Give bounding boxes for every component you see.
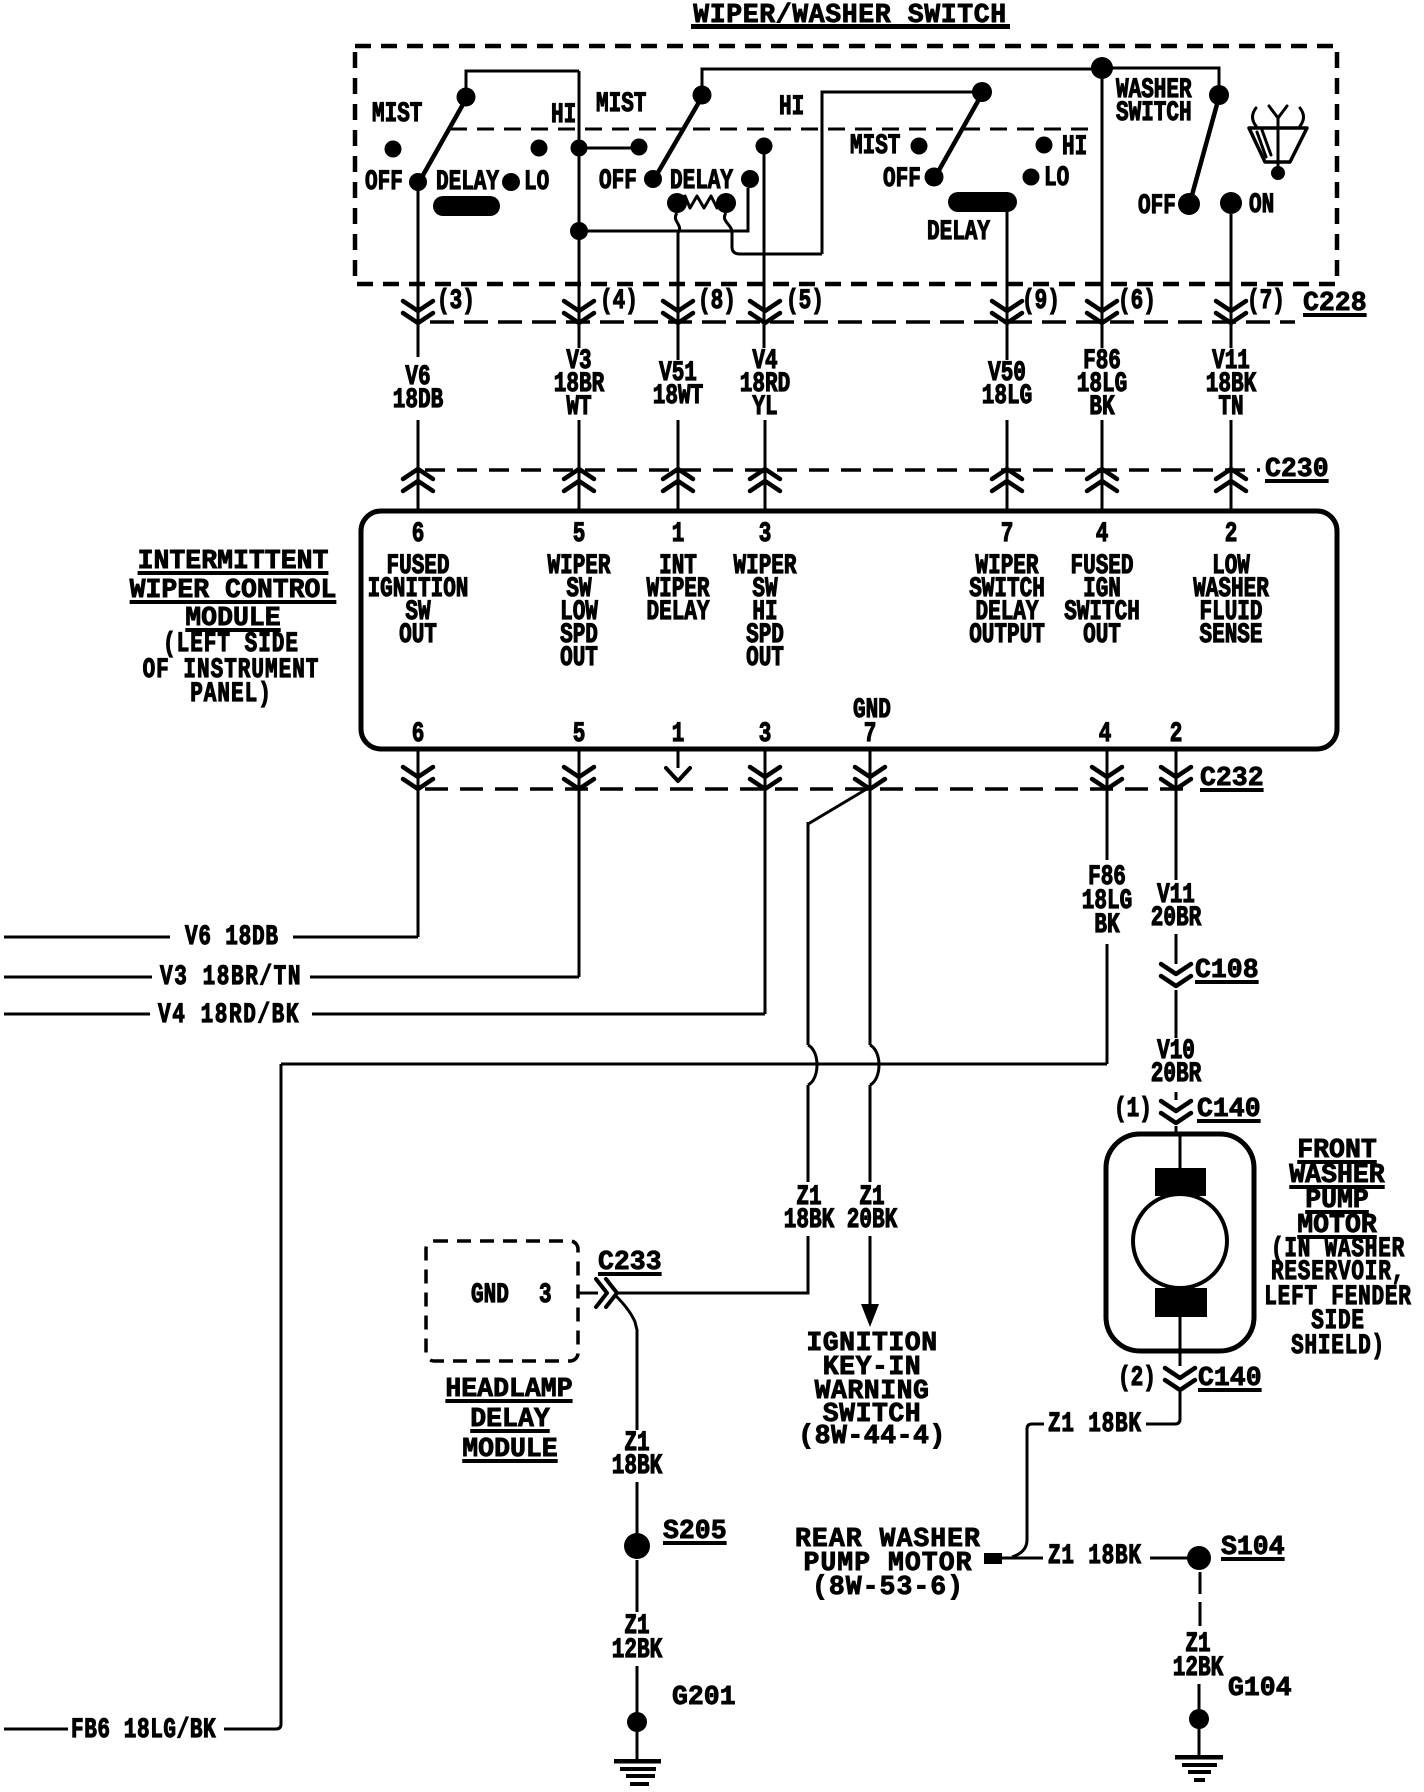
washer switch pivot contact — [1209, 85, 1229, 105]
ground G104 dot — [1189, 1709, 1209, 1729]
switch S1 OFF column wire (pin 3) — [417, 182, 420, 357]
wire label FB6 18LG/BK — [71, 1720, 216, 1743]
wire F86 18LG/BK into module — [1101, 420, 1104, 511]
pin label (9) — [1022, 291, 1060, 314]
title: WIPER/WASHER SWITCH — [640, 3, 1060, 27]
connector C233 chevrons — [596, 1279, 607, 1307]
connector label C108 — [1195, 958, 1259, 982]
module GND label — [853, 700, 891, 723]
washer ON output wire (pin 7 column) — [1230, 214, 1233, 348]
switch S1 junction on output — [571, 140, 588, 157]
ground label G201 — [672, 1685, 736, 1709]
wire label F86 18LG BK (below module) — [987, 867, 1227, 890]
switch S1 junction to delay contact — [570, 222, 588, 240]
wire V3 18BR/WT into module — [578, 420, 581, 511]
wire label V3 18BR/TN — [160, 967, 302, 990]
ground G201 dot — [627, 1712, 647, 1732]
connector C232 row dashed line — [425, 787, 1185, 791]
wire to S104 (right segment) — [1150, 1557, 1188, 1560]
switch S3 pivot contact — [972, 82, 992, 102]
washer switch feed wire — [1102, 68, 1219, 95]
splice label S104 — [1221, 1535, 1285, 1559]
Z1 20BK hop over F86 wire — [870, 1045, 879, 1085]
connector C230 chevrons on V4 18RD/YL — [750, 469, 780, 479]
switch S1 feed wire — [466, 71, 579, 95]
washer switch OFF contact — [1178, 193, 1200, 215]
connector C232 chevrons — [855, 767, 885, 777]
switch S1 delay wiper bar — [433, 196, 500, 216]
motor M1 upper brush — [1155, 1168, 1206, 1196]
wire S104 to ground (dashed segments) — [1199, 1572, 1202, 1594]
module bottom pin 7 — [750, 724, 990, 747]
motor M1 armature circle — [1133, 1194, 1227, 1288]
switch S2 arm OFF->pivot — [653, 97, 702, 181]
label IGNITION KEY-IN WARNING SWITCH (8W-44-4) — [662, 1331, 1082, 1355]
headlamp module GND pin label — [471, 1285, 509, 1308]
diagonal branch to Z1 18BK — [808, 787, 870, 824]
module top pin 3 — [645, 524, 885, 547]
intermittent wiper control module box — [361, 511, 1337, 749]
label REAR WASHER PUMP MOTOR (8W-53-6) — [678, 1527, 1098, 1551]
wire label V6 18DB — [185, 927, 279, 950]
label FRONT WASHER PUMP MOTOR — [1127, 1138, 1424, 1162]
connector C228 pin (8) chevrons — [663, 301, 693, 311]
wire F86 horizontal run to left — [281, 1063, 1107, 1066]
washer feed junction — [1091, 57, 1113, 79]
wire Z1 18BK vertical (to C233) — [807, 822, 810, 1045]
wire label Z1 18BK (motor) — [1048, 1414, 1142, 1437]
wire V6 18DB left stub — [4, 936, 170, 939]
washer nozzle icon — [1253, 108, 1257, 126]
connector C228 pin (7) chevrons — [1216, 301, 1246, 311]
module pin function text at x=579 — [459, 556, 699, 579]
wire label Z1 18BK (S205 branch) — [517, 1433, 757, 1456]
switch S3 HI contact — [1036, 137, 1053, 154]
connector C228 pin (5) chevrons — [750, 301, 780, 311]
module top pin 6 — [298, 524, 538, 547]
wire label Z1 12BK (right) — [1078, 1634, 1318, 1657]
wire C233 to Z1 junction — [618, 1292, 808, 1295]
splice S104 — [1187, 1546, 1211, 1570]
connector C230 chevrons on V51 18WT — [663, 469, 693, 479]
wire V50 18LG into module — [1006, 420, 1009, 511]
connector C228 row dashed line — [430, 320, 1295, 324]
connector C228 pin (4) chevrons — [564, 301, 594, 311]
washer feed column wire (pin 6) — [1101, 68, 1104, 348]
switch S1 arm OFF->pivot — [418, 99, 466, 184]
connector C232 chevrons — [1161, 767, 1191, 777]
connector C232 chevrons — [1092, 767, 1122, 777]
Z1 18BK hop over F86 wire — [808, 1045, 817, 1085]
connector C232 pin1 single chevron — [677, 749, 680, 768]
wire V4 18RD/BK from pin 3 — [764, 749, 767, 1014]
wire label Z1 20BK — [752, 1187, 992, 1210]
connector C140 pin(2) chevrons — [1165, 1368, 1195, 1378]
module pin function text at x=765 — [645, 556, 885, 579]
connector C230 chevrons on V3 18BR/WT — [564, 469, 594, 479]
R1 right terminal wire to S3 pivot — [724, 213, 822, 254]
wire label V6 18DB — [298, 367, 538, 390]
connector C140 pin(1) chevrons — [1161, 1101, 1191, 1111]
motor M1 lower brush — [1155, 1288, 1207, 1317]
wire FB6 left stub — [4, 1728, 68, 1731]
module location note — [111, 634, 351, 657]
wire V4 18RD/YL into module — [764, 420, 767, 511]
module pin function text at x=1231 — [1111, 556, 1351, 579]
wire Z1 18BK from motor — [1146, 1392, 1180, 1424]
front washer pump motor M1 housing — [1106, 1134, 1254, 1351]
wire V6 18DB from pin 6 — [417, 749, 420, 937]
switch S1 LO contact — [502, 173, 520, 191]
switch S1 HI contact — [531, 140, 548, 157]
module bottom pin 4 — [985, 724, 1225, 747]
R1 left terminal drop wire (pin 8 column) — [675, 213, 679, 360]
washer switch arm — [1189, 97, 1219, 206]
connector C232 chevrons — [403, 767, 433, 777]
module bottom pin 3 — [645, 724, 885, 747]
pin label (4) — [600, 291, 638, 314]
switch S2 feed wire — [702, 69, 1102, 95]
motor location note — [1218, 1239, 1424, 1262]
wire V11 20BR from pin 2 — [1175, 749, 1178, 880]
switch S3 arm OFF->pivot — [934, 94, 982, 179]
switch S2 pivot contact — [693, 86, 712, 105]
connector label C228 — [1303, 291, 1367, 315]
module pin function text at x=1102 — [982, 556, 1222, 579]
wire V11 18BK/TN into module — [1230, 420, 1233, 511]
wire label V3 18BR/WT — [459, 351, 699, 374]
switch S2 HI contact — [756, 138, 773, 155]
connector label C140 (1) — [1197, 1097, 1261, 1121]
pin 7 GND stub — [869, 749, 872, 787]
connector C232 chevrons — [750, 767, 780, 777]
module pin function text at x=418 — [298, 556, 538, 579]
module top pin 4 — [982, 524, 1222, 547]
connector C230 chevrons on V6 18DB — [403, 469, 433, 479]
wire label V10 20BR — [1056, 1041, 1296, 1064]
module bottom pin 2 — [1056, 724, 1296, 747]
ground label G104 — [1228, 1676, 1292, 1700]
module pin function text at x=678 — [558, 556, 798, 579]
wire label Z1 18BK (rear washer) — [1048, 1546, 1142, 1569]
module top pin 1 — [558, 524, 798, 547]
pin label (6) — [1118, 291, 1156, 314]
wire Z1 20BK vertical (to key-in switch) — [869, 787, 872, 1045]
module top pin 5 — [459, 524, 699, 547]
wire Z1 18BK corner down — [1012, 1424, 1044, 1557]
ground G104 symbol — [1175, 1755, 1223, 1760]
switch S1 output wire (pin 4 column) — [578, 71, 581, 348]
switch S2 OFF contact — [644, 170, 662, 188]
module bottom pin 5 — [459, 724, 699, 747]
connector label C230 — [1265, 457, 1329, 481]
module top pin 2 — [1111, 524, 1351, 547]
washer switch ON contact — [1220, 192, 1242, 214]
switch S3 OFF contact — [925, 168, 944, 187]
splice S205 — [624, 1533, 650, 1559]
wiper/washer switch dashed enclosure — [355, 46, 1337, 284]
wire V3 18BR/TN left stub — [4, 976, 152, 979]
connector C228 pin (6) chevrons — [1087, 301, 1117, 311]
connector C228 pin (3) chevrons — [403, 301, 433, 311]
switch S1 HI tie wire — [579, 147, 639, 150]
connector label C140 (2) — [1198, 1366, 1262, 1390]
wire label V51 18WT — [558, 363, 798, 386]
switch S2 HI output wire (pin 5 column) — [763, 154, 766, 348]
wire F86 18LG/BK from pin 4 — [1106, 749, 1109, 860]
splice label S205 — [663, 1519, 727, 1543]
connector label C233 — [598, 1250, 662, 1274]
connector label C232 — [1200, 766, 1264, 790]
wire label F86 18LG/BK — [982, 351, 1222, 374]
wire from headlamp module to C233 — [578, 1292, 598, 1295]
motor M1 lead-in wire — [1179, 1136, 1182, 1168]
ground G201 symbol — [614, 1759, 661, 1764]
module bottom pin 1 — [558, 724, 798, 747]
wire V4 18RD/BK left stub — [4, 1013, 150, 1016]
connector C232 chevrons — [564, 767, 594, 777]
internal dashed detent line — [450, 128, 1090, 131]
delay resistor R1 right terminal — [716, 193, 736, 213]
connector C108 chevrons — [1161, 964, 1191, 974]
module pin function text at x=1007 — [887, 556, 1127, 579]
switch S2 DELAY contact — [741, 170, 759, 188]
switch S1 pivot contact — [457, 88, 476, 107]
switch S3 delay wiper bar — [948, 192, 1017, 212]
wire label Z1 18BK (left) — [689, 1187, 929, 1210]
wire to S104 (left segment) — [1002, 1557, 1043, 1560]
delay resistor R1 zigzag — [677, 196, 726, 208]
pin label (2) — [1118, 1368, 1156, 1391]
label HEADLAMP DELAY MODULE — [299, 1377, 719, 1401]
wire label V50 18LG — [887, 363, 1127, 386]
headlamp delay module dashed box — [426, 1241, 578, 1361]
connector C230 chevrons on V11 18BK/TN — [1216, 469, 1246, 479]
module bottom pin 6 — [298, 724, 538, 747]
wire FB6 18LG/BK vertical down left side — [224, 1064, 281, 1729]
arrowhead to ignition key-in warning switch — [861, 1304, 879, 1327]
wire V51 18WT into module — [677, 420, 680, 511]
switch S3 LO contact — [1023, 169, 1040, 186]
wire label V4 18RD/BK — [158, 1005, 300, 1028]
switch S1 tie contact — [631, 139, 648, 156]
connector C228 pin (9) chevrons — [992, 301, 1022, 311]
switch S1 MIST contact — [385, 141, 402, 158]
switch S1 OFF contact — [409, 173, 427, 191]
module top pin 7 — [887, 524, 1127, 547]
delay resistor R1 left terminal — [667, 193, 687, 213]
wire label V4 18RD/YL — [645, 351, 885, 374]
wire V3 18BR/TN from pin 5 — [578, 749, 581, 977]
pin label (3) — [437, 291, 475, 314]
connector C230 row dashed line — [425, 468, 1260, 472]
wire junction->S2 delay contact — [579, 188, 748, 231]
S3 delay output wire (pin 9 column) — [1006, 212, 1009, 360]
wire label Z1 12BK (left) — [517, 1616, 757, 1639]
pin label (5) — [786, 291, 824, 314]
connector C230 chevrons on F86 18LG/BK — [1087, 469, 1117, 479]
connector C230 chevrons on V50 18LG — [992, 469, 1022, 479]
rear washer pump motor terminal dash — [984, 1553, 1002, 1564]
branch wire down to S205 — [616, 1296, 637, 1430]
module label INTERMITTENT WIPER CONTROL MODULE — [23, 549, 443, 573]
pin label (8) — [698, 291, 736, 314]
wire label V11 18BK/TN — [1111, 351, 1351, 374]
title underline — [691, 24, 1010, 29]
wire V6 18DB into module — [417, 420, 420, 511]
switch S3 MIST contact — [911, 138, 928, 155]
pin label (1) — [1114, 1099, 1152, 1122]
pin label (7) — [1247, 291, 1285, 314]
wire label V11 20BR — [1056, 885, 1296, 908]
motor M1 lead-out wire — [1179, 1317, 1182, 1366]
